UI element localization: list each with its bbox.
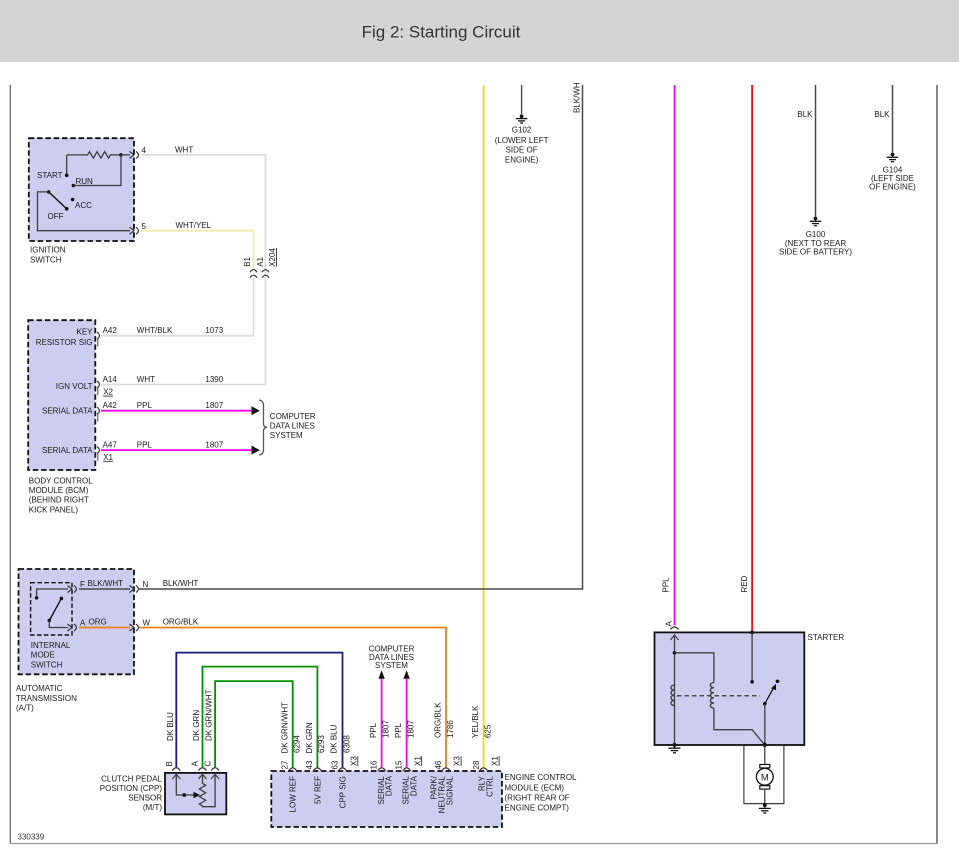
svg-text:PPL: PPL xyxy=(662,577,671,593)
ground (starter motor) xyxy=(759,803,771,813)
svg-text:A14: A14 xyxy=(103,375,118,384)
svg-text:ENGINE CONTROL: ENGINE CONTROL xyxy=(505,773,578,782)
ground G104 xyxy=(869,153,916,192)
ECM pin 46 PARK/NEUTRAL SIGNAL xyxy=(430,702,462,814)
svg-text:IGNITION: IGNITION xyxy=(30,245,66,254)
arrow to data lines (pin 16) and wire PPL 1807 xyxy=(378,670,384,767)
svg-text:G102: G102 xyxy=(512,126,532,135)
wire BLK to ground G100 xyxy=(797,85,815,217)
svg-text:5: 5 xyxy=(142,222,147,231)
svg-text:DATA LINES: DATA LINES xyxy=(270,422,315,431)
svg-text:YEL/BLK: YEL/BLK xyxy=(471,705,480,738)
wire YEL/BLK 625 (vertical to ECM pin 28) xyxy=(483,85,485,768)
CPP pin A xyxy=(191,761,207,771)
svg-text:(RIGHT REAR OF: (RIGHT REAR OF xyxy=(505,794,570,803)
engine control module ECM box xyxy=(271,771,577,827)
svg-text:TRANSMISSION: TRANSMISSION xyxy=(16,694,77,703)
title bar xyxy=(0,0,959,62)
svg-text:1786: 1786 xyxy=(446,720,455,738)
svg-text:625: 625 xyxy=(484,724,493,738)
wire RED (vertical from top to starter) xyxy=(740,85,752,632)
ground (starter solenoid) xyxy=(669,743,681,753)
svg-text:SERIAL DATA: SERIAL DATA xyxy=(42,407,93,416)
svg-text:SYSTEM: SYSTEM xyxy=(270,431,303,440)
computer data lines system (ECM side) xyxy=(369,645,415,671)
svg-text:A42: A42 xyxy=(103,326,118,335)
svg-text:(BEHIND RIGHT: (BEHIND RIGHT xyxy=(29,496,89,505)
svg-text:(M/T): (M/T) xyxy=(143,803,162,812)
resistor (ignition switch internal) xyxy=(67,152,121,158)
svg-text:X1: X1 xyxy=(103,453,113,462)
body control module BCM xyxy=(28,320,95,470)
BCM pin A14 (IGN VOLT) xyxy=(97,375,224,397)
contact ACC xyxy=(71,198,92,210)
svg-text:W: W xyxy=(143,618,151,627)
wire ORG/BLK 1786 (to ECM pin 46) xyxy=(139,617,446,767)
contact fixed dot xyxy=(776,680,780,684)
mechanical link (dashed) xyxy=(677,695,760,697)
svg-text:KICK PANEL): KICK PANEL) xyxy=(29,505,79,514)
svg-text:MODULE (BCM): MODULE (BCM) xyxy=(29,486,89,495)
svg-text:INTERNAL: INTERNAL xyxy=(31,641,71,650)
svg-text:DK BLU: DK BLU xyxy=(166,712,175,741)
svg-text:SIDE OF: SIDE OF xyxy=(506,146,538,155)
ECM pin 28 RLY CTRL xyxy=(471,705,500,797)
wire BLK/WH (vertical from top, to internal mode switch pin N) xyxy=(139,82,583,589)
svg-text:IGN VOLT: IGN VOLT xyxy=(56,382,93,391)
svg-text:43: 43 xyxy=(305,760,314,769)
svg-text:X204: X204 xyxy=(268,248,277,267)
svg-text:SWITCH: SWITCH xyxy=(31,660,63,669)
IMS pin A xyxy=(49,618,86,631)
svg-text:N: N xyxy=(143,580,149,589)
svg-text:16: 16 xyxy=(370,760,379,769)
wire to pin 4 xyxy=(121,154,130,156)
svg-text:DK GRN: DK GRN xyxy=(192,710,201,741)
wire winding to contact junction xyxy=(714,708,765,745)
node starter motor junction xyxy=(763,743,767,747)
ground G100 xyxy=(779,217,852,257)
svg-text:(A/T): (A/T) xyxy=(16,704,34,713)
BCM pin A42 (SERIAL DATA) / wire PPL 1807 xyxy=(97,401,260,421)
svg-text:SERIAL DATA: SERIAL DATA xyxy=(42,446,93,455)
svg-text:A47: A47 xyxy=(103,441,118,450)
svg-text:1390: 1390 xyxy=(205,375,223,384)
svg-text:6308: 6308 xyxy=(342,735,351,753)
connector X204 pin B1/A1 xyxy=(243,248,277,278)
svg-text:4: 4 xyxy=(142,146,147,155)
wire WHT/YEL xyxy=(141,221,254,268)
ECM pin 43 5V REF xyxy=(305,722,326,804)
clutch pedal position CPP sensor box xyxy=(100,773,227,815)
svg-text:1807: 1807 xyxy=(205,401,223,410)
wire PPL (vertical from top to starter pin A) xyxy=(662,85,675,625)
svg-text:C: C xyxy=(204,761,213,767)
svg-text:A: A xyxy=(191,761,200,767)
svg-text:X3: X3 xyxy=(453,756,462,766)
svg-text:ENGINE COMPT): ENGINE COMPT) xyxy=(505,804,570,813)
svg-text:X2: X2 xyxy=(103,388,113,397)
svg-text:63: 63 xyxy=(330,760,339,769)
svg-text:BLK: BLK xyxy=(797,110,813,119)
svg-text:MODULE (ECM): MODULE (ECM) xyxy=(505,783,565,792)
contact RUN xyxy=(72,155,121,187)
svg-text:B1: B1 xyxy=(243,256,252,266)
svg-text:DK GRN/WHT: DK GRN/WHT xyxy=(205,689,214,741)
svg-text:B: B xyxy=(165,761,174,766)
svg-text:X3: X3 xyxy=(349,756,358,766)
ECM pin 16 SERIAL DATA xyxy=(369,720,394,805)
ECM pin 27 LOW REF xyxy=(280,702,301,813)
svg-text:MODE: MODE xyxy=(31,651,55,660)
svg-text:BLK/WH: BLK/WH xyxy=(573,82,582,113)
svg-text:Fig 2: Starting Circuit: Fig 2: Starting Circuit xyxy=(362,23,521,42)
svg-text:COMPUTER: COMPUTER xyxy=(270,412,316,421)
starter pin A xyxy=(665,621,679,630)
automatic transmission A/T box xyxy=(19,569,135,674)
svg-text:RED: RED xyxy=(740,575,749,592)
svg-text:DATA: DATA xyxy=(385,775,394,796)
svg-text:WHT: WHT xyxy=(175,145,193,154)
svg-text:1807: 1807 xyxy=(382,720,391,738)
svg-text:PPL: PPL xyxy=(137,441,153,450)
svg-text:1807: 1807 xyxy=(407,720,416,738)
svg-text:M: M xyxy=(761,772,769,783)
svg-text:SIDE OF BATTERY): SIDE OF BATTERY) xyxy=(779,248,852,257)
pin W xyxy=(130,618,151,631)
svg-text:ACC: ACC xyxy=(75,201,92,210)
BCM pin A47 (SERIAL DATA) / wire PPL 1807 xyxy=(97,441,260,462)
label ignition switch xyxy=(30,245,66,264)
svg-text:SENSOR: SENSOR xyxy=(128,794,162,803)
svg-text:RESISTOR SIG: RESISTOR SIG xyxy=(36,338,93,347)
svg-text:G100: G100 xyxy=(806,230,826,239)
wire BLK/WHT (inside A/T) xyxy=(79,579,130,589)
wire DK GRN/WHT 6294 (CPP pin C to ECM pin 27) xyxy=(205,681,293,767)
svg-text:CLUTCH PEDAL: CLUTCH PEDAL xyxy=(101,775,162,784)
starter switch contact blade xyxy=(763,684,776,745)
motor housing loop xyxy=(744,745,784,804)
svg-text:LOW REF: LOW REF xyxy=(289,776,298,813)
svg-text:SYSTEM: SYSTEM xyxy=(375,661,408,670)
CPP pin C xyxy=(204,761,220,771)
svg-text:OFF: OFF xyxy=(48,212,64,221)
svg-text:CTRL: CTRL xyxy=(486,775,495,796)
svg-text:STARTER: STARTER xyxy=(808,633,845,642)
starter solenoid feed wire xyxy=(671,635,679,745)
contact START xyxy=(37,155,68,180)
pin 5 (ignition switch) xyxy=(130,222,147,234)
ECM pin 15 SERIAL DATA xyxy=(394,720,422,805)
brace computer data lines system (BCM side) xyxy=(259,400,316,455)
svg-text:WHT/BLK: WHT/BLK xyxy=(137,326,173,335)
svg-text:A42: A42 xyxy=(103,401,118,410)
svg-text:ORG/BLK: ORG/BLK xyxy=(163,617,199,626)
svg-text:SWITCH: SWITCH xyxy=(30,256,62,265)
solenoid hold-in winding L1 xyxy=(671,685,675,705)
svg-text:BLK/WHT: BLK/WHT xyxy=(88,579,124,588)
svg-text:DATA: DATA xyxy=(409,775,418,796)
svg-text:BLK: BLK xyxy=(874,110,890,119)
ignition switch S1 xyxy=(29,138,134,241)
arrow to data lines (pin 15) and wire PPL 1807 xyxy=(403,670,409,767)
svg-text:330339: 330339 xyxy=(18,833,45,842)
svg-text:AUTOMATIC: AUTOMATIC xyxy=(16,684,63,693)
svg-text:OF ENGINE): OF ENGINE) xyxy=(869,183,916,192)
IMS pin F xyxy=(37,580,85,598)
svg-text:ORG/BLK: ORG/BLK xyxy=(433,702,442,738)
svg-text:A1: A1 xyxy=(256,256,265,266)
ECM pin 63 CPP SIG xyxy=(329,724,358,808)
CPP pin B xyxy=(165,761,180,770)
svg-text:X1: X1 xyxy=(413,756,422,766)
solenoid pull-in winding branch wire xyxy=(675,653,714,683)
svg-text:DK BLU: DK BLU xyxy=(329,724,338,753)
solenoid pull-in winding L2 xyxy=(710,683,714,709)
svg-text:DK GRN: DK GRN xyxy=(305,722,314,753)
svg-text:(LOWER LEFT: (LOWER LEFT xyxy=(495,136,549,145)
svg-text:6293: 6293 xyxy=(317,735,326,753)
svg-text:1807: 1807 xyxy=(205,441,223,450)
node resistor output xyxy=(119,153,123,157)
svg-text:RUN: RUN xyxy=(76,177,94,186)
starter assembly xyxy=(655,632,845,745)
svg-text:28: 28 xyxy=(472,760,481,769)
svg-text:BLK/WHT: BLK/WHT xyxy=(163,579,199,588)
starter motor M1 xyxy=(756,745,773,805)
svg-text:15: 15 xyxy=(394,760,403,769)
BCM pin A42 (KEY RESISTOR SIG) xyxy=(97,326,224,346)
wire WHT/BLK 1073 xyxy=(101,278,254,336)
pin 4 (ignition switch) xyxy=(130,146,147,158)
svg-text:46: 46 xyxy=(434,760,443,769)
internal mode switch xyxy=(31,583,72,670)
svg-text:POSITION (CPP): POSITION (CPP) xyxy=(100,784,163,793)
CPP low ref return wire xyxy=(203,774,220,806)
wire to ground G102 xyxy=(521,85,523,114)
svg-text:1073: 1073 xyxy=(205,326,223,335)
wire pivot to pin 5 xyxy=(38,192,131,231)
svg-text:X1: X1 xyxy=(491,756,500,766)
svg-text:START: START xyxy=(37,171,63,180)
svg-text:CPP SIG: CPP SIG xyxy=(339,776,348,808)
svg-text:5V REF: 5V REF xyxy=(313,776,322,804)
svg-text:PPL: PPL xyxy=(394,722,403,738)
svg-text:WHT/YEL: WHT/YEL xyxy=(176,221,212,230)
svg-text:6294: 6294 xyxy=(293,735,302,753)
ground G102 xyxy=(495,114,549,164)
wire BLK to ground G104 xyxy=(874,85,892,153)
svg-text:DK GRN/WHT: DK GRN/WHT xyxy=(280,702,289,754)
svg-text:ORG: ORG xyxy=(89,617,107,626)
svg-text:BODY CONTROL: BODY CONTROL xyxy=(29,476,93,485)
svg-text:27: 27 xyxy=(280,760,289,769)
CPP potentiometer resistor xyxy=(199,774,207,806)
svg-text:ENGINE): ENGINE) xyxy=(505,156,539,165)
wire WHT 1390 xyxy=(101,145,266,384)
svg-text:SIGNAL: SIGNAL xyxy=(445,775,454,805)
svg-text:(LEFT SIDE: (LEFT SIDE xyxy=(871,174,914,183)
svg-text:A: A xyxy=(665,621,674,627)
svg-text:WHT: WHT xyxy=(137,375,155,384)
pin N xyxy=(130,580,149,593)
wire DK BLU 6308 (CPP pin B to ECM pin 63) xyxy=(166,653,343,768)
CPP internal wiper wire xyxy=(172,774,200,798)
svg-text:A: A xyxy=(80,618,86,627)
svg-text:(NEXT TO REAR: (NEXT TO REAR xyxy=(785,239,847,248)
wire DK GRN 6293 (CPP pin A to ECM pin 43) xyxy=(192,667,317,768)
svg-text:F: F xyxy=(80,580,85,589)
svg-text:PPL: PPL xyxy=(369,722,378,738)
switch blade (ignition) xyxy=(47,190,69,211)
battery feed contact (RED) xyxy=(750,630,754,683)
wire ORG (inside A/T) xyxy=(79,617,130,627)
label body control module xyxy=(29,476,93,514)
svg-text:PPL: PPL xyxy=(137,401,153,410)
label automatic transmission xyxy=(16,684,77,712)
svg-text:KEY: KEY xyxy=(76,328,93,337)
